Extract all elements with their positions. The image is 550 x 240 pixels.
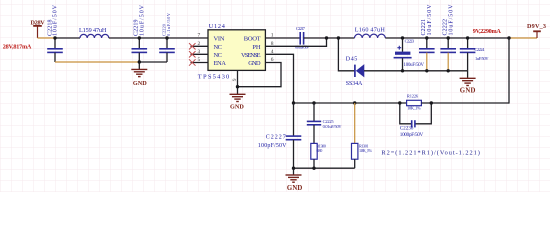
resistor R1226 — [407, 94, 422, 111]
svg-text:D45: D45 — [346, 57, 358, 63]
svg-text:0.1uF/50V: 0.1uF/50V — [166, 12, 171, 36]
ground symbol IC — [230, 94, 246, 110]
svg-text:GND: GND — [287, 185, 302, 192]
junction output C2221 top — [425, 36, 428, 39]
junction output feedback — [507, 36, 510, 39]
svg-text:GND: GND — [248, 60, 261, 67]
svg-text:1000pF/50V: 1000pF/50V — [400, 132, 424, 138]
inductor L160 — [355, 27, 386, 38]
pin number 9 powerpad — [233, 78, 238, 81]
no-ERC cross pin3 — [189, 51, 196, 57]
capacitor C2219 — [132, 4, 148, 62]
svg-text:C2225: C2225 — [323, 119, 335, 124]
no-ERC cross pin2 — [189, 43, 196, 49]
pin BOOT name — [244, 36, 261, 43]
wire L160 to output — [385, 37, 509, 39]
junction diode branch — [337, 36, 340, 39]
svg-text:10uF/50V: 10uF/50V — [53, 4, 59, 36]
power port D9V_3 — [527, 23, 546, 38]
pin NC name row3 — [214, 52, 223, 59]
capacitor C2225 — [307, 103, 343, 143]
svg-text:C2227: C2227 — [266, 135, 286, 141]
junction output C2224 top — [466, 36, 469, 39]
pin number 6 — [271, 57, 274, 63]
svg-text:10uF/50V: 10uF/50V — [140, 4, 146, 36]
svg-text:SS34A: SS34A — [346, 81, 363, 87]
pin number 3 — [198, 49, 201, 55]
pin VIN name — [214, 36, 225, 43]
pin number 7 — [198, 33, 201, 39]
junction feedback VSENSE — [292, 101, 295, 104]
junction powerpad gnd — [236, 85, 239, 88]
pin stub 2 NC — [191, 45, 209, 47]
wire VSENSE pin4 — [265, 54, 293, 103]
wire C2220 gnd segment — [139, 61, 167, 63]
inductor L159 — [79, 27, 109, 38]
wire input orange segment — [38, 37, 56, 39]
junction input gnd — [138, 60, 141, 63]
capacitor C2223 electrolytic — [394, 38, 425, 71]
svg-text:NC: NC — [214, 52, 223, 59]
svg-text:1uF/50V: 1uF/50V — [475, 56, 489, 61]
junction R1226 left — [398, 101, 401, 104]
junction gnd rail C2223 — [401, 69, 404, 72]
wire output orange segment — [509, 37, 537, 39]
pin number 8 — [271, 41, 274, 47]
wire R1301 orange segment — [354, 103, 356, 143]
junction output C2223 top — [401, 36, 404, 39]
net label 28V,817mA — [3, 43, 32, 50]
junction input cap C2218 — [53, 36, 56, 39]
svg-text:GND: GND — [133, 80, 147, 87]
capacitor C2220 — [159, 12, 175, 62]
svg-text:NC: NC — [214, 44, 223, 51]
resistor R1301 — [352, 143, 373, 168]
svg-text:L160 47uH: L160 47uH — [355, 27, 386, 34]
pin stub 5 ENA — [191, 62, 209, 64]
svg-text:ENA: ENA — [214, 60, 227, 67]
svg-text:VIN: VIN — [214, 36, 225, 43]
svg-text:100uF/50V: 100uF/50V — [404, 63, 425, 68]
ground symbol mid — [286, 168, 303, 192]
svg-text:D9V_3: D9V_3 — [527, 23, 546, 30]
svg-text:680: 680 — [316, 148, 322, 153]
junction input cap C2220 — [165, 36, 168, 39]
junction gnd rail C2221 — [425, 69, 428, 72]
svg-text:100pF/50V: 100pF/50V — [258, 143, 287, 149]
no-ERC cross pin5 — [189, 59, 196, 65]
capacitor C2227 — [258, 103, 301, 168]
capacitor C2218 — [47, 4, 63, 62]
pin NC name row2 — [214, 44, 223, 51]
junction output C2222 top — [447, 36, 450, 39]
wire feedback vertical right — [508, 38, 510, 104]
svg-text:R2=(1.221*R1)/(Vout-1.221): R2=(1.221*R1)/(Vout-1.221) — [381, 150, 480, 157]
wire BOOT pin1 — [265, 37, 300, 39]
capacitor C2224 — [460, 38, 490, 71]
pin stub 3 NC — [191, 53, 209, 55]
op-amp U124 TPS5430 body — [198, 23, 266, 81]
capacitor C2222 — [440, 4, 456, 71]
pin ENA name — [214, 60, 227, 67]
wire powerpad stub — [237, 70, 239, 94]
svg-text:C2217: C2217 — [296, 26, 306, 31]
wire C2217 to junction — [304, 37, 355, 39]
svg-text:C2224: C2224 — [474, 47, 485, 52]
wire diode branch vertical — [338, 38, 354, 71]
junction BOOT PH — [325, 36, 328, 39]
power port D28V — [31, 20, 46, 38]
pin number 2 — [198, 41, 201, 47]
junction mid gnd R1300 — [312, 167, 315, 170]
svg-text:C2223: C2223 — [405, 38, 415, 43]
ground symbol output — [460, 71, 476, 95]
pin number 1 — [271, 33, 274, 39]
svg-text:PH: PH — [252, 44, 260, 51]
wire feedback horizontal — [294, 102, 407, 104]
resistor R1300 — [311, 143, 326, 168]
pin VSENSE name — [241, 52, 261, 59]
svg-text:10uF/50V: 10uF/50V — [448, 4, 454, 36]
junction mid gnd C2227 — [292, 167, 295, 170]
pin number 5 — [198, 57, 201, 63]
net label 9V,2290mA — [473, 28, 502, 35]
svg-text:1.8K_1%: 1.8K_1% — [359, 148, 373, 153]
pin number 4 — [271, 49, 274, 55]
junction gnd rail C2222 — [447, 69, 450, 72]
svg-text:U124: U124 — [209, 23, 225, 30]
svg-text:0.01uF/50V: 0.01uF/50V — [323, 124, 343, 129]
ground symbol input — [131, 62, 147, 87]
wire input gnd orange segment — [55, 61, 139, 63]
wire GND pin6 — [238, 63, 282, 87]
junction feedback C2225 — [312, 101, 315, 104]
svg-text:BOOT: BOOT — [244, 36, 261, 43]
junction feedback R1301 — [353, 101, 356, 104]
svg-text:R1226: R1226 — [407, 94, 419, 99]
svg-text:VSENSE: VSENSE — [241, 52, 261, 59]
pin PH name — [252, 44, 260, 51]
wire PH pin8 — [265, 38, 326, 46]
svg-text:L159 47uH: L159 47uH — [79, 27, 107, 34]
diode D45 SS34A — [346, 57, 364, 87]
pin GND name — [248, 60, 261, 67]
wire L159 to VIN pin — [109, 37, 208, 39]
svg-text:GND: GND — [230, 103, 244, 110]
capacitor C2217 — [295, 26, 310, 49]
svg-text:GND: GND — [460, 88, 476, 95]
svg-text:9V,2290mA: 9V,2290mA — [473, 28, 502, 35]
wire mid gnd rail — [294, 167, 355, 169]
svg-text:10uF/50V: 10uF/50V — [427, 4, 433, 36]
svg-text:C2236: C2236 — [400, 125, 414, 131]
svg-text:10K_1%: 10K_1% — [407, 106, 421, 111]
note formula — [381, 150, 480, 157]
svg-text:28V,817mA: 28V,817mA — [3, 43, 32, 50]
svg-text:D28V: D28V — [31, 20, 46, 27]
capacitor C2221 — [419, 4, 435, 71]
wire R1226 right to feedback vertical — [421, 102, 509, 104]
capacitor C2236 loop — [400, 103, 432, 138]
junction input cap C2219 — [138, 36, 141, 39]
svg-text:TPS5430: TPS5430 — [198, 74, 230, 81]
junction R1226 right — [430, 101, 433, 104]
svg-text:7: 7 — [198, 33, 201, 39]
wire diode to gnd rail — [364, 70, 468, 72]
wire input rail to L159 — [55, 37, 81, 39]
